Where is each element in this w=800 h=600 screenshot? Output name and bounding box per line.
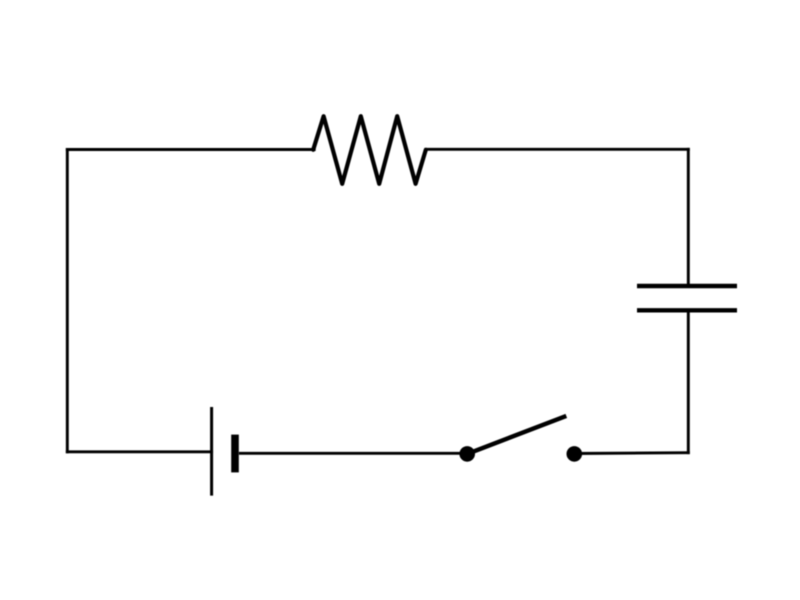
switch left contact (node) [459, 446, 475, 462]
capacitor bottom plate [637, 308, 737, 312]
wire: bottom right segment (corner to switch right contact) [574, 451, 688, 455]
wire: right side lower (capacitor down to bottom-right corner) [687, 310, 690, 452]
capacitor top plate [637, 284, 737, 288]
switch right contact (node) [567, 446, 583, 462]
resistor (zigzag) [313, 116, 426, 184]
switch blade (open, hinged at left contact) [467, 416, 566, 454]
battery positive plate (long thin bar) [210, 407, 213, 496]
wire: bottom middle segment (battery to switch left contact) [239, 452, 467, 455]
wire: bottom left segment (battery to bottom-left corner) [67, 450, 211, 453]
battery negative plate (short thick bar) [231, 435, 239, 473]
wire: top right segment (resistor to top-right corner) [426, 148, 689, 151]
wire: right side upper (top-right corner down to capacitor) [687, 149, 690, 286]
wire: left side (top-left corner down to bottom-left corner) [66, 150, 69, 452]
wire: top left segment (corner to resistor) [67, 148, 314, 151]
